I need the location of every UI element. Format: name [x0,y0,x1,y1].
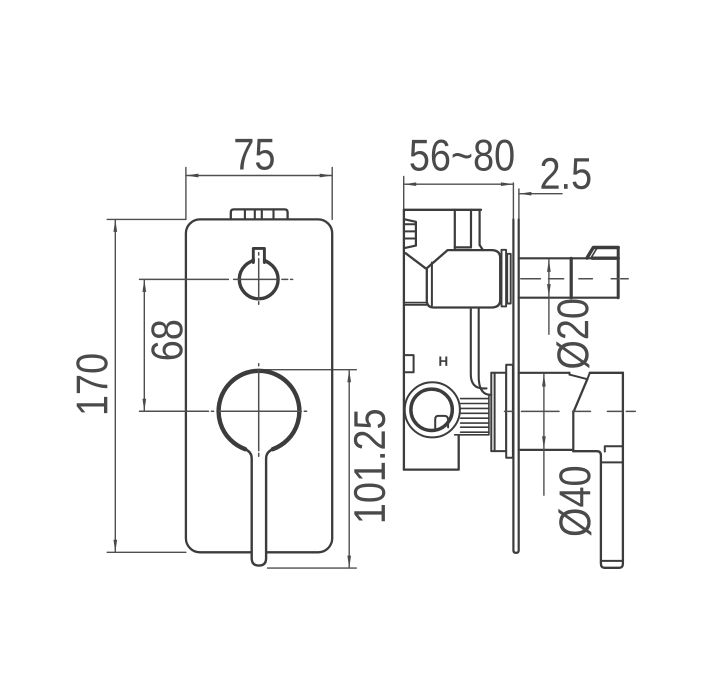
spacer B diverter [507,254,511,304]
dim Ø20 [548,259,550,334]
spacer A diverter [502,250,507,307]
diverter head [573,258,618,297]
extension lines for 75 dim [186,168,332,220]
valve body left edge [403,210,405,470]
arrowhead 68 top [142,279,146,292]
label 2.5 [541,158,590,190]
arrowhead 75 right [320,174,333,178]
handle neck vertical [572,411,574,451]
arrowhead 68 bottom [142,399,146,412]
diverter tab inner line [591,249,597,258]
arrowhead 170 top [113,219,117,232]
inlet ribs [404,219,416,248]
dimension line 68 [143,279,145,411]
handle head top [590,372,623,374]
arrowhead 170 bottom [113,540,117,553]
handle shoulder line [570,375,587,379]
mounting lug [404,355,414,372]
flange right edge [505,373,507,451]
lever [245,449,273,565]
flange top and bottom edges [491,373,506,451]
lever joint line [601,461,623,463]
cartridge stem [455,210,480,250]
chamfer [406,253,426,268]
label 101.25 [354,410,386,521]
dimension line 170 [114,219,116,552]
centerlines front top circle [140,278,293,280]
2.5 dim [518,189,520,220]
handle notch [605,446,623,451]
nut left face inner line [431,263,433,306]
body bottom [404,435,459,470]
wall plate front (rounded rect) [186,219,332,552]
handle head right edge + lever right [573,373,623,568]
arrowhead diam40 top [542,374,546,387]
wall plate side [513,220,518,553]
label Ø40 [558,467,591,536]
ledge lines [404,303,427,305]
port outer circle [405,382,460,437]
cartridge stem bottom [455,245,483,250]
centerlines front big circle [140,410,307,412]
handle flange lip [491,373,494,451]
diverter flange [570,258,573,297]
cartridge nut [427,250,500,307]
extension lines 56~80 [404,177,514,220]
diverter barrel [519,258,570,297]
threads [461,399,489,433]
label 56~80 [410,139,513,171]
body top edge [404,209,481,211]
handle neck connector [587,373,590,379]
arrowhead diam40 bottom [542,436,546,449]
dimension line 75 [186,175,332,177]
diverter knob circle [239,260,278,299]
label 75 [235,139,274,170]
centerline diverter [521,278,628,280]
arrowhead 56~80 right [501,182,514,186]
label 68 [151,321,183,360]
knob notch slot fill [255,248,263,264]
label Ø20 [556,300,589,369]
arrowhead diam20 bottom [547,284,551,297]
diverter tab [587,248,618,259]
diverter tab thick underside [593,257,619,260]
knob notch flares [250,259,267,263]
dimension line 56~80 [404,183,514,185]
dim Ø40 [543,374,545,495]
inlet rib lines [404,224,415,238]
arrowhead 101.25 bottom [347,556,351,569]
arrowhead 101.25 top [347,370,351,383]
handle taper line [574,379,588,411]
centerline handle [505,410,636,412]
handle washer [506,365,513,458]
extension lines for 170 dim [107,219,186,552]
arrowhead 2.5 [519,192,532,196]
arrowhead diam20 top [547,259,551,272]
arrowhead 56~80 left [404,182,417,186]
threads bottom connector [455,434,489,436]
lever cap line [601,560,623,562]
handle barrel [519,373,574,450]
keyway [435,416,448,429]
handle neck [569,373,571,375]
arrowhead 75 left [186,174,199,178]
ribbed button divider lines [245,209,274,219]
handle ring (big circle) [219,371,300,449]
extension lines for 101.25 dim [261,370,356,568]
neck curves [471,309,487,388]
ribbed diverter button top [231,209,288,219]
dimension line 101.25 [348,370,350,568]
H mark [439,357,447,366]
threads right boundary [488,396,490,435]
port inner circle [411,389,452,430]
label 170 [76,354,108,413]
